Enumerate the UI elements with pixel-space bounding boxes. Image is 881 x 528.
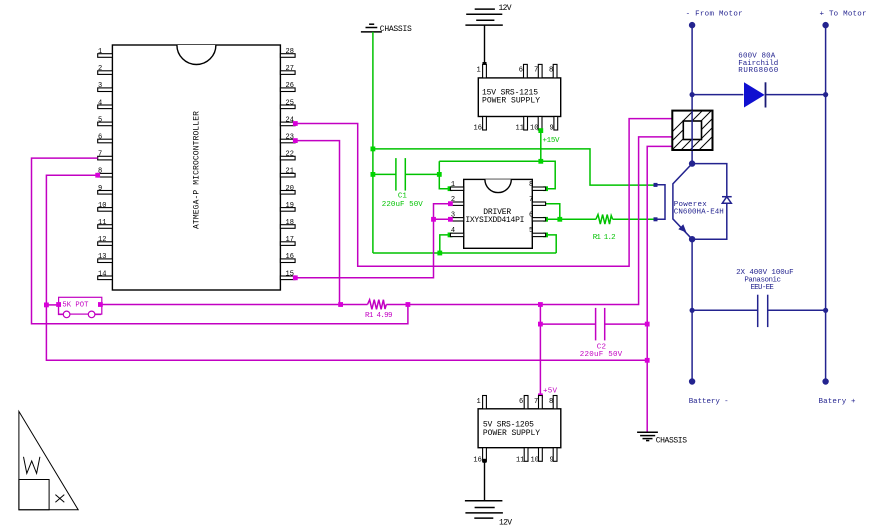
logo triangle: [19, 411, 78, 509]
svg-text:18: 18: [286, 219, 294, 227]
svg-text:8: 8: [529, 181, 533, 189]
microcontroller U1 body: [112, 45, 280, 290]
svg-text:28: 28: [286, 48, 294, 56]
svg-text:C1: C1: [398, 193, 407, 201]
svg-text:11: 11: [516, 125, 524, 133]
Q1 emitter arrow: [678, 224, 686, 232]
svg-text:6: 6: [98, 134, 102, 142]
wire gnd vertical to chassis bottom: [647, 146, 672, 432]
label C3: [736, 269, 794, 292]
svg-text:12: 12: [98, 236, 106, 244]
svg-text:Batery +: Batery +: [819, 398, 856, 406]
wire C2 left: [540, 323, 595, 325]
svg-text:6: 6: [519, 398, 523, 406]
svg-text:11: 11: [98, 219, 106, 227]
U2 right pins: [532, 187, 545, 237]
wire Q1 emitter down: [691, 239, 693, 381]
PS1 bottom pins: [483, 117, 558, 131]
wire from-motor vertical: [691, 25, 693, 164]
svg-text:21: 21: [286, 168, 294, 176]
svg-text:13: 13: [98, 253, 106, 261]
svg-text:15: 15: [286, 270, 294, 278]
svg-text:2: 2: [98, 65, 102, 73]
svg-text:4: 4: [451, 227, 455, 235]
svg-text:+ To Motor: + To Motor: [820, 10, 867, 18]
svg-text:1: 1: [477, 398, 481, 406]
wire rail to driver pin1: [439, 161, 450, 188]
driver U2 body: [464, 179, 533, 248]
svg-text:11: 11: [516, 457, 524, 465]
svg-text:220uF 50V: 220uF 50V: [580, 351, 623, 359]
diode D1: [744, 82, 765, 107]
Q1 gate terminal squares: [654, 183, 658, 187]
resistor R1 4.99 zigzag: [368, 300, 387, 310]
PS1 top pins: [483, 64, 557, 78]
wire IC pin15 to driver pins 2,3: [295, 204, 450, 278]
svg-text:8: 8: [549, 398, 553, 406]
wire IC pin8 gnd run: [46, 175, 647, 360]
wire driver gnd loop: [440, 235, 451, 253]
svg-text:IXYSIXDD414PI: IXYSIXDD414PI: [465, 216, 524, 225]
svg-text:RURG8060: RURG8060: [738, 67, 778, 75]
green junction dots: [371, 128, 563, 255]
svg-text:10: 10: [530, 125, 538, 133]
capacitor C1 plates: [395, 158, 397, 191]
svg-text:7: 7: [529, 196, 533, 204]
Q1 internal diode branch: [692, 164, 727, 197]
wire pot left link: [46, 304, 58, 306]
svg-text:10: 10: [98, 202, 106, 210]
svg-text:27: 27: [286, 65, 294, 73]
svg-text:12V: 12V: [499, 519, 512, 528]
svg-text:5: 5: [529, 227, 533, 235]
svg-text:22: 22: [286, 151, 294, 159]
wire C2 right: [605, 323, 648, 325]
magenta junction dots: [44, 121, 650, 398]
svg-text:9: 9: [550, 457, 554, 465]
wire +15V vertical: [540, 130, 542, 162]
power supply PS2 box: [478, 409, 561, 448]
hatched box module: [644, 110, 739, 160]
svg-text:9: 9: [98, 185, 102, 193]
svg-text:19: 19: [286, 202, 294, 210]
svg-text:CHASSIS: CHASSIS: [380, 25, 412, 34]
wire 12V to PS1 pin1: [484, 25, 486, 64]
svg-text:3: 3: [98, 82, 102, 90]
wire R1 to powerex gate: [613, 218, 654, 220]
wire IC pin23 down: [295, 141, 339, 305]
U1 left pins 1-14: [98, 48, 113, 280]
svg-text:1: 1: [477, 67, 481, 75]
Q1 outline: [673, 164, 692, 240]
power supply PS1 box: [478, 78, 560, 117]
svg-text:8: 8: [549, 67, 553, 75]
svg-text:16: 16: [473, 457, 481, 465]
svg-text:- From Motor: - From Motor: [686, 10, 743, 18]
resistor R1 1.2 zigzag: [596, 215, 613, 225]
svg-text:+15V: +15V: [543, 137, 560, 145]
svg-text:24: 24: [286, 116, 294, 124]
wire +15V rail: [439, 161, 555, 188]
navy junction dots: [689, 22, 829, 385]
label D1: [738, 53, 778, 76]
12V battery bottom: [465, 501, 503, 518]
wire cap row right: [768, 309, 826, 311]
chassis ground bottom: [637, 432, 658, 440]
svg-text:EEU-EE: EEU-EE: [751, 284, 775, 292]
wire driver pin7 jog: [546, 204, 560, 220]
wire pot to R1: [102, 304, 368, 306]
wire to-motor vertical: [825, 25, 827, 381]
svg-text:5K POT: 5K POT: [62, 302, 89, 310]
svg-text:23: 23: [286, 134, 294, 142]
capacitor C3 plates: [757, 295, 759, 327]
wire C1 right: [405, 173, 439, 175]
svg-text:6: 6: [519, 67, 523, 75]
wire IC pin24 to hatch top: [295, 119, 672, 267]
svg-text:7: 7: [98, 151, 102, 159]
svg-text:R1 4.99: R1 4.99: [365, 312, 393, 320]
svg-text:16: 16: [286, 253, 294, 261]
svg-text:Battery -: Battery -: [689, 398, 729, 406]
svg-text:9: 9: [550, 125, 554, 133]
svg-text:20: 20: [286, 185, 294, 193]
gate bracket: [657, 185, 665, 220]
capacitor C2 plates: [595, 308, 597, 341]
12V battery top: [465, 9, 502, 25]
svg-text:POWER SUPPLY: POWER SUPPLY: [482, 97, 540, 106]
svg-text:7: 7: [534, 398, 538, 406]
potentiometer POT1: [59, 297, 102, 317]
svg-text:POWER SUPPLY: POWER SUPPLY: [483, 429, 540, 438]
wire IC pin7 loop: [32, 158, 408, 324]
wire through hatch: [691, 111, 693, 150]
svg-text:220uF 50V: 220uF 50V: [382, 201, 423, 209]
svg-text:CN600HA-E4H: CN600HA-E4H: [674, 209, 724, 217]
wire PS2 pin16 to 12V bottom: [484, 461, 486, 501]
svg-text:10: 10: [531, 457, 539, 465]
svg-text:6: 6: [529, 212, 533, 220]
IGBT module Q1 Powerex: [657, 164, 732, 240]
svg-text:7: 7: [534, 67, 538, 75]
svg-text:+5V: +5V: [543, 388, 557, 396]
svg-text:5: 5: [98, 116, 102, 124]
chassis ground top: [361, 24, 382, 32]
U2 left pins: [450, 187, 463, 237]
wire C1 left: [373, 173, 396, 175]
PS2 bottom pins: [483, 448, 557, 462]
zener symbol: [722, 196, 732, 198]
svg-text:4: 4: [98, 99, 102, 107]
wire cap row left: [692, 309, 758, 311]
wire pot right link: [95, 305, 100, 315]
svg-text:CHASSIS: CHASSIS: [656, 436, 687, 445]
wire R1 right to hatch mid: [386, 137, 672, 305]
svg-text:16: 16: [474, 125, 482, 133]
svg-text:25: 25: [286, 99, 294, 107]
svg-text:ATMEGA-P MICROCONTROLLER: ATMEGA-P MICROCONTROLLER: [193, 111, 202, 229]
svg-text:12V: 12V: [499, 4, 512, 13]
U1 right pins 28-15: [280, 48, 295, 280]
svg-text:1: 1: [451, 181, 455, 189]
svg-text:1: 1: [98, 48, 102, 56]
svg-text:26: 26: [286, 82, 294, 90]
wire driver pin6 to R1: [546, 218, 596, 220]
svg-text:R1 1.2: R1 1.2: [593, 234, 616, 242]
PS2 top pins: [483, 396, 557, 409]
wire +5V vertical: [539, 305, 541, 396]
wire diode row: [692, 94, 743, 96]
svg-text:17: 17: [286, 236, 294, 244]
svg-text:14: 14: [98, 270, 106, 278]
wire chassis to powerex gate top: [373, 149, 654, 185]
wire chassis vertical: [372, 32, 374, 253]
